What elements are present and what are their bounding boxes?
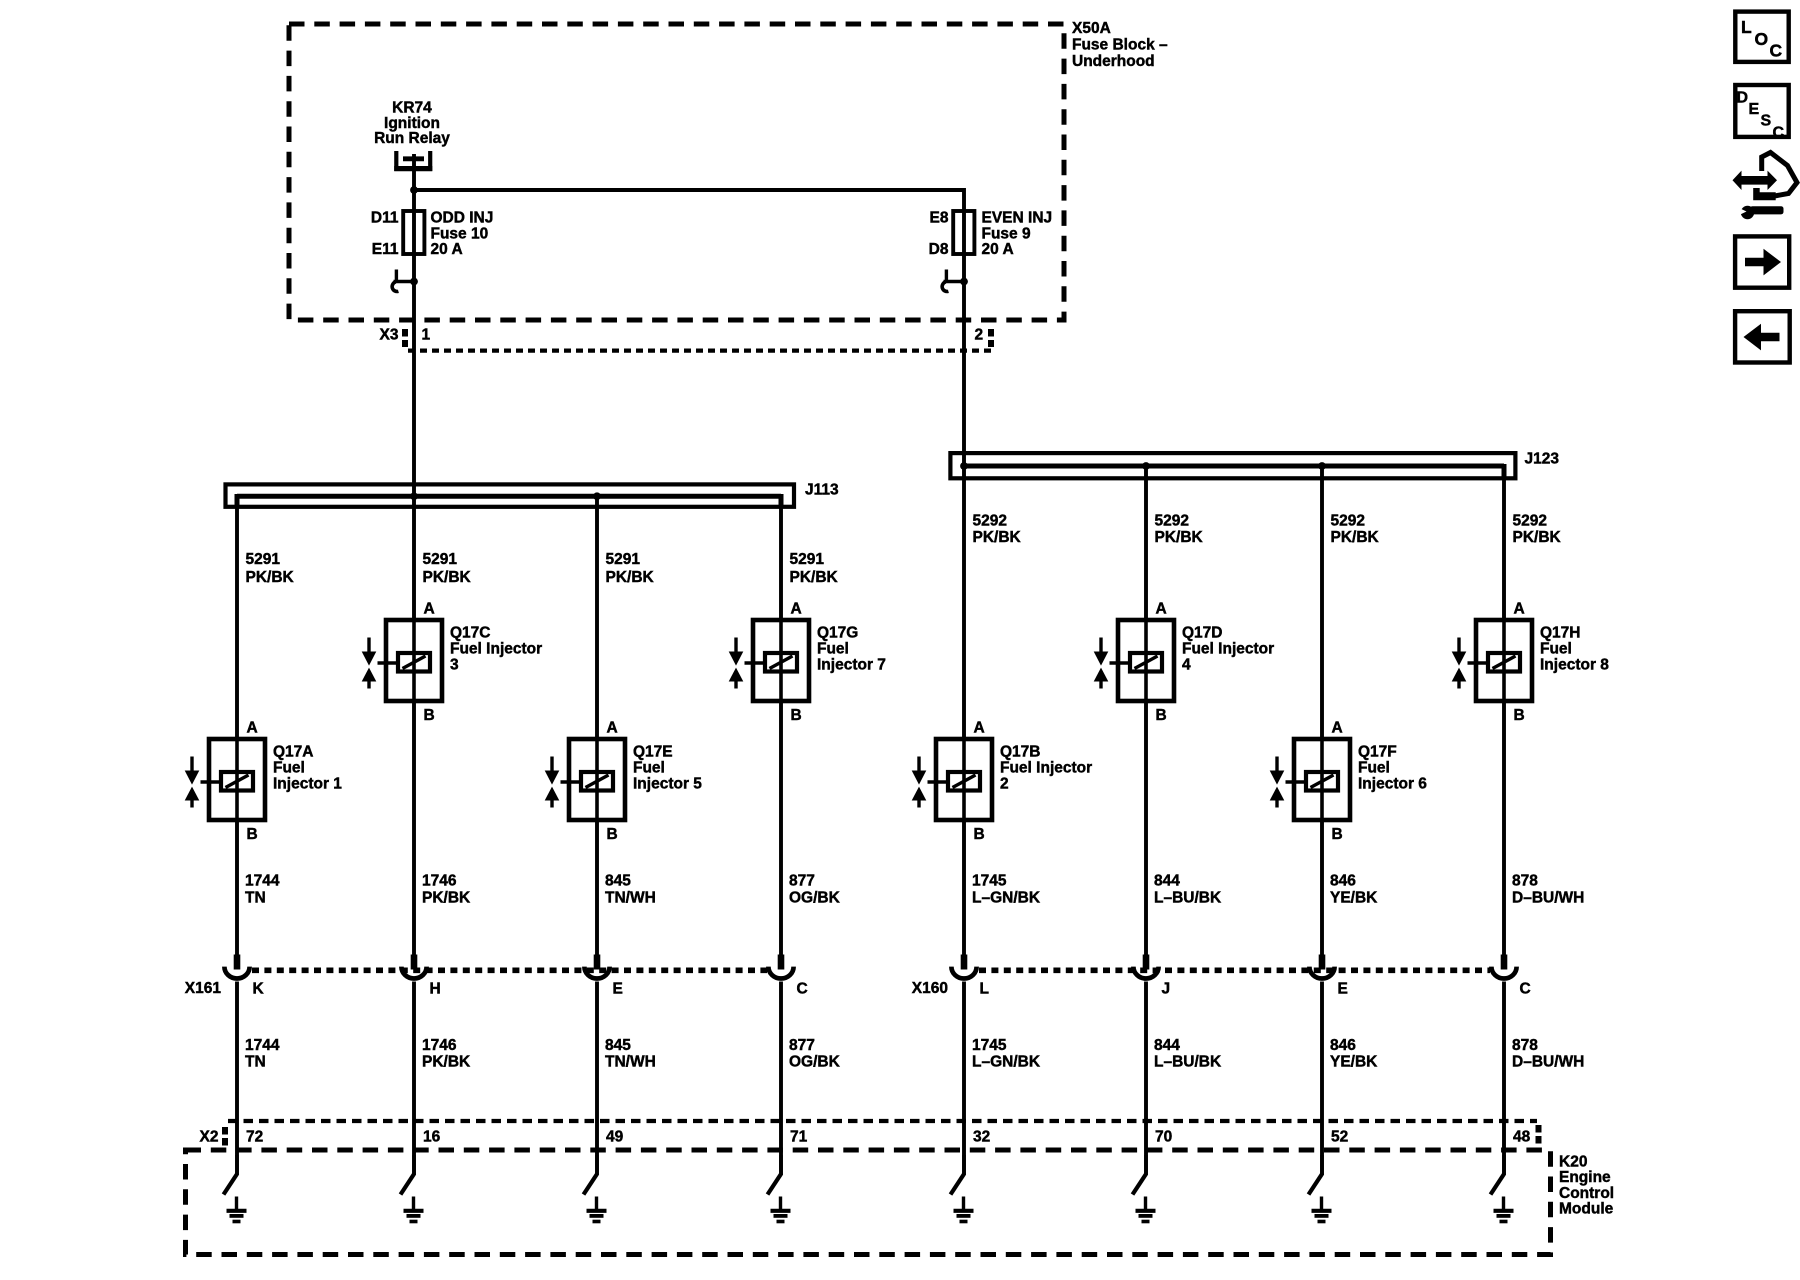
icon box LOC <box>1735 12 1788 62</box>
wire: J113 to fuel injector 5 <box>595 496 599 739</box>
svg-text:D8: D8 <box>929 241 949 258</box>
svg-text:E: E <box>613 981 623 998</box>
connector X161 dashed line <box>252 967 767 973</box>
svg-text:B: B <box>247 826 258 843</box>
connector terminal at pin E <box>584 955 609 979</box>
junction J123 wire J <box>1142 462 1150 470</box>
svg-text:878: 878 <box>1512 1037 1538 1054</box>
svg-text:Q17A: Q17A <box>273 744 314 761</box>
svg-text:Injector 7: Injector 7 <box>817 657 886 674</box>
svg-text:Engine: Engine <box>1559 1169 1611 1186</box>
fuse 9 pin label D8 <box>929 241 949 258</box>
connector X2 pin 16 label <box>423 1129 441 1146</box>
svg-text:K20: K20 <box>1559 1154 1587 1171</box>
svg-text:E: E <box>1338 981 1348 998</box>
svg-text:1745: 1745 <box>972 873 1007 890</box>
svg-text:Underhood: Underhood <box>1072 53 1155 70</box>
fuel injector Q17C pin A label <box>424 601 435 618</box>
svg-text:PK/BK: PK/BK <box>423 569 472 586</box>
connector pin J label <box>1162 981 1171 998</box>
injector 6 driver switch <box>1309 1155 1323 1195</box>
svg-text:844: 844 <box>1154 873 1180 890</box>
junction J123 wire E <box>1318 462 1326 470</box>
wire segment below pin K <box>235 982 239 1176</box>
svg-text:845: 845 <box>605 1037 631 1054</box>
svg-text:20 A: 20 A <box>431 241 463 258</box>
svg-text:OG/BK: OG/BK <box>789 1054 841 1071</box>
wire label 5291 PK/BK at x=237 <box>246 551 295 586</box>
wire segment below pin L <box>962 982 966 1176</box>
svg-text:845: 845 <box>605 873 631 890</box>
svg-text:J: J <box>1162 981 1171 998</box>
svg-text:ODD INJ: ODD INJ <box>431 210 494 227</box>
svg-text:C: C <box>797 981 808 998</box>
svg-text:32: 32 <box>973 1129 990 1146</box>
svg-text:C: C <box>1520 981 1531 998</box>
wire label 844 L&#8211;BU/BK below connector <box>1154 1037 1222 1071</box>
svg-text:48: 48 <box>1513 1129 1531 1146</box>
wire label 1744 TN below connector <box>245 1037 280 1071</box>
wire label 5291 PK/BK at x=781 <box>790 551 839 586</box>
fuel injector Q17D label <box>1182 625 1274 674</box>
ECM K20 label <box>1559 1154 1614 1218</box>
svg-text:TN/WH: TN/WH <box>605 889 656 906</box>
wire segment below pin C <box>1502 982 1506 1176</box>
injector 4 driver switch <box>1133 1155 1147 1195</box>
connector pin L label <box>980 981 989 998</box>
fuel injector Q17B label <box>1000 744 1092 793</box>
svg-text:Fuel: Fuel <box>1540 641 1572 658</box>
splice pack J113 bus bar <box>237 494 781 506</box>
svg-text:Q17F: Q17F <box>1358 744 1397 761</box>
wire: fuel injector 2 to connector <box>962 820 966 956</box>
injector 7 driver switch <box>768 1155 782 1195</box>
svg-text:Module: Module <box>1559 1201 1614 1218</box>
junction below fuse 9 <box>960 278 968 286</box>
wire: fuel injector 6 to connector <box>1320 820 1324 956</box>
svg-text:Fuel Injector: Fuel Injector <box>1000 760 1092 777</box>
wire: fuel injector 4 to connector <box>1144 701 1148 956</box>
svg-text:J123: J123 <box>1525 450 1560 467</box>
wire: J113 to fuel injector 3 <box>412 496 416 620</box>
wire label 1744 TN above connector <box>245 873 280 907</box>
wire segment below pin E <box>1320 982 1324 1176</box>
svg-text:O: O <box>1755 29 1769 49</box>
fuel injector Q17E pin A label <box>607 720 618 737</box>
wire label 846 YE/BK above connector <box>1330 873 1378 907</box>
relay KR74 label <box>374 100 450 148</box>
svg-text:E: E <box>1749 101 1760 118</box>
svg-text:E11: E11 <box>372 241 399 258</box>
fuse block X50A dashed outline box <box>289 24 1064 320</box>
junction J113 wire H <box>410 492 418 500</box>
svg-text:A: A <box>247 720 258 737</box>
svg-text:5291: 5291 <box>606 551 641 568</box>
svg-text:2: 2 <box>1000 776 1009 793</box>
wire: relay KR74 to junction <box>412 154 416 192</box>
wire label 877 OG/BK below connector <box>789 1037 841 1071</box>
svg-text:Q17B: Q17B <box>1000 744 1041 761</box>
svg-text:L–BU/BK: L–BU/BK <box>1154 889 1222 906</box>
svg-text:844: 844 <box>1154 1037 1180 1054</box>
icon arrows and wrench <box>1733 153 1798 220</box>
wire: J113 to fuel injector 7 <box>779 494 783 620</box>
connector pin C label <box>797 981 808 998</box>
fuel injector Q17G pin A label <box>791 601 802 618</box>
wire: J123 to fuel injector 6 <box>1320 466 1324 739</box>
fuel injector Q17B pin B label <box>974 826 985 843</box>
fuel injector Q17E label <box>633 744 702 793</box>
connector X2 left edge tick <box>222 1127 228 1146</box>
wire segment below pin J <box>1144 982 1148 1176</box>
connector X2 pin 52 label <box>1331 1129 1348 1146</box>
fuel injector Q17E pin B label <box>607 826 618 843</box>
svg-text:YE/BK: YE/BK <box>1330 889 1378 906</box>
svg-text:PK/BK: PK/BK <box>246 569 295 586</box>
wire label 1746 PK/BK below connector <box>422 1037 471 1071</box>
connector terminal at pin J <box>1133 955 1158 979</box>
svg-text:Q17D: Q17D <box>1182 625 1223 642</box>
svg-text:878: 878 <box>1512 873 1538 890</box>
connector X3 label <box>380 327 399 344</box>
connector pin E label <box>613 981 623 998</box>
wire segment below pin E <box>595 982 599 1176</box>
wire label 5292 PK/BK at x=964 <box>973 513 1022 546</box>
fuse 10 pin label D11 <box>371 210 399 227</box>
wire segment below pin H <box>412 982 416 1176</box>
svg-text:71: 71 <box>790 1129 808 1146</box>
connector X2 pin 70 label <box>1155 1129 1172 1146</box>
svg-text:1745: 1745 <box>972 1037 1007 1054</box>
ground symbol under driver 7 <box>771 1197 791 1222</box>
connector terminal at pin C <box>768 955 793 979</box>
svg-text:L: L <box>1741 17 1752 37</box>
svg-text:PK/BK: PK/BK <box>790 569 839 586</box>
svg-text:PK/BK: PK/BK <box>973 529 1022 546</box>
wire label 877 OG/BK above connector <box>789 873 841 907</box>
svg-text:B: B <box>1332 826 1343 843</box>
svg-text:846: 846 <box>1330 873 1356 890</box>
wire: J113 to fuel injector 1 <box>235 494 239 739</box>
svg-text:20 A: 20 A <box>982 241 1014 258</box>
svg-text:Fuel Injector: Fuel Injector <box>1182 641 1274 658</box>
svg-text:A: A <box>974 720 985 737</box>
wire label 845 TN/WH below connector <box>605 1037 656 1071</box>
svg-text:Run Relay: Run Relay <box>374 130 450 147</box>
svg-text:Control: Control <box>1559 1185 1614 1202</box>
splice pack J113 label <box>805 482 839 499</box>
svg-text:Fuel: Fuel <box>273 760 305 777</box>
svg-text:B: B <box>607 826 618 843</box>
fuel injector Q17E symbol <box>545 739 625 820</box>
svg-text:X161: X161 <box>185 980 222 997</box>
junction below fuse 10 <box>410 278 418 286</box>
connector X2 pin 71 label <box>790 1129 808 1146</box>
svg-text:5291: 5291 <box>790 551 825 568</box>
fuel injector Q17A label <box>273 744 342 793</box>
fuel injector Q17B symbol <box>912 739 992 820</box>
svg-text:TN: TN <box>245 1054 266 1071</box>
fuel injector Q17G symbol <box>729 620 809 701</box>
fuse 9 EVEN INJ symbol <box>953 211 974 282</box>
wire label 1746 PK/BK above connector <box>422 873 471 907</box>
fuse block X50A label <box>1072 20 1168 70</box>
svg-text:PK/BK: PK/BK <box>1331 529 1380 546</box>
connector terminal at pin H <box>401 955 426 979</box>
fuel injector Q17H pin A label <box>1514 601 1525 618</box>
svg-text:OG/BK: OG/BK <box>789 889 841 906</box>
connector X2 pin 72 label <box>246 1129 263 1146</box>
svg-text:5292: 5292 <box>1155 513 1189 530</box>
injector 2 driver switch <box>951 1155 965 1195</box>
svg-text:TN: TN <box>245 889 266 906</box>
wire: J123 to fuel injector 4 <box>1144 466 1148 620</box>
connector X3 pin 2 label <box>975 327 984 344</box>
svg-text:A: A <box>607 720 618 737</box>
svg-text:Fuse 10: Fuse 10 <box>431 225 489 242</box>
svg-text:YE/BK: YE/BK <box>1330 1054 1378 1071</box>
wire label 1745 L&#8211;GN/BK above connector <box>972 873 1041 907</box>
svg-text:49: 49 <box>606 1129 624 1146</box>
svg-text:A: A <box>1514 601 1525 618</box>
svg-text:1: 1 <box>422 327 431 344</box>
fuel injector Q17C label <box>450 625 542 674</box>
splice pack J123 bus bar <box>964 464 1504 480</box>
connector pin C label <box>1520 981 1531 998</box>
fuel injector Q17F pin A label <box>1332 720 1343 737</box>
svg-text:S: S <box>1761 113 1772 130</box>
fuel injector Q17G pin B label <box>791 707 802 724</box>
svg-text:Fuse Block –: Fuse Block – <box>1072 37 1168 54</box>
splice pack J123 outline <box>950 453 1515 478</box>
ground symbol under driver 4 <box>1136 1197 1156 1222</box>
wire label 5292 PK/BK at x=1504 <box>1513 513 1562 546</box>
connector X161 label <box>185 980 222 997</box>
splice pack J123 label <box>1525 450 1560 467</box>
svg-text:D11: D11 <box>371 210 399 227</box>
svg-text:Fuse 9: Fuse 9 <box>982 225 1031 242</box>
wire segment below pin C <box>779 982 783 1176</box>
svg-text:Fuel Injector: Fuel Injector <box>450 641 542 658</box>
fuse 10 ODD INJ symbol <box>403 190 424 282</box>
wire label 846 YE/BK below connector <box>1330 1037 1378 1071</box>
connector X3 right edge tick <box>988 329 994 347</box>
wire: fuel injector 3 to connector <box>412 701 416 956</box>
relay KR74 contact symbol <box>394 151 432 171</box>
icon box DESC <box>1735 85 1788 142</box>
fuel injector Q17C symbol <box>362 620 442 701</box>
wire: fuel injector 5 to connector <box>595 820 599 956</box>
svg-text:Fuel: Fuel <box>817 641 849 658</box>
wire 5292 from X3 pin 2 to J123 <box>962 282 966 467</box>
wire label 845 TN/WH above connector <box>605 873 656 907</box>
svg-text:52: 52 <box>1331 1129 1348 1146</box>
svg-text:5291: 5291 <box>246 551 281 568</box>
wire: feed to EVEN INJ fuse <box>414 190 964 212</box>
svg-text:846: 846 <box>1330 1037 1356 1054</box>
connector pin K label <box>253 981 265 998</box>
svg-text:X50A: X50A <box>1072 20 1111 37</box>
svg-text:PK/BK: PK/BK <box>422 889 471 906</box>
connector X2 pin 49 label <box>606 1129 624 1146</box>
fuel injector Q17F symbol <box>1270 739 1350 820</box>
fuel injector Q17H pin B label <box>1514 707 1525 724</box>
connector X160 label <box>912 980 948 997</box>
svg-text:C: C <box>1773 125 1785 142</box>
fuel injector Q17D symbol <box>1094 620 1174 701</box>
fuel injector Q17C pin B label <box>424 707 435 724</box>
fuel injector Q17A symbol <box>185 739 265 820</box>
svg-text:Q17H: Q17H <box>1540 625 1581 642</box>
svg-text:J113: J113 <box>805 482 839 499</box>
svg-text:Fuel: Fuel <box>1358 760 1390 777</box>
ground symbol under driver 8 <box>1494 1197 1514 1222</box>
fuel injector Q17F pin B label <box>1332 826 1343 843</box>
svg-text:L–GN/BK: L–GN/BK <box>972 1054 1041 1071</box>
svg-text:PK/BK: PK/BK <box>606 569 655 586</box>
svg-text:72: 72 <box>246 1129 263 1146</box>
svg-text:5292: 5292 <box>1513 513 1547 530</box>
connector X2 pin 32 label <box>973 1129 990 1146</box>
connector X3 pin 1 label <box>422 327 431 344</box>
svg-text:877: 877 <box>789 873 815 890</box>
svg-text:A: A <box>1156 601 1167 618</box>
ground symbol under driver 1 <box>227 1197 247 1222</box>
connector pin H label <box>430 981 441 998</box>
svg-text:70: 70 <box>1155 1129 1172 1146</box>
fuel injector Q17A pin A label <box>247 720 258 737</box>
svg-text:877: 877 <box>789 1037 815 1054</box>
wire label 878 D&#8211;BU/WH below connector <box>1512 1037 1584 1071</box>
junction J113 wire E <box>593 492 601 500</box>
wire: fuel injector 8 to connector <box>1502 701 1506 956</box>
connector X3 left edge tick <box>402 329 408 347</box>
fuel injector Q17H label <box>1540 625 1609 674</box>
junction J123 wire L <box>960 462 968 470</box>
ground symbol under driver 6 <box>1312 1197 1332 1222</box>
svg-text:4: 4 <box>1182 657 1191 674</box>
svg-text:Q17G: Q17G <box>817 625 858 642</box>
svg-text:B: B <box>974 826 985 843</box>
svg-text:Q17C: Q17C <box>450 625 491 642</box>
svg-text:Injector 5: Injector 5 <box>633 776 702 793</box>
connector X160 dashed line <box>979 967 1490 973</box>
icon box back arrow <box>1735 311 1790 362</box>
svg-text:B: B <box>791 707 802 724</box>
fuse 10 pin label E11 <box>372 241 399 258</box>
connector X3 dashed body line <box>408 349 996 353</box>
connector terminal at pin L <box>951 955 976 979</box>
fuse 9 output terminal hook <box>942 270 964 292</box>
wire label 5292 PK/BK at x=1322 <box>1331 513 1380 546</box>
fuel injector Q17D pin A label <box>1156 601 1167 618</box>
fuel injector Q17A pin B label <box>247 826 258 843</box>
connector terminal at pin E <box>1309 955 1334 979</box>
svg-text:2: 2 <box>975 327 984 344</box>
fuse 9 value label <box>982 210 1053 259</box>
connector terminal at pin C <box>1491 955 1516 979</box>
svg-text:B: B <box>1514 707 1525 724</box>
svg-text:C: C <box>1770 41 1783 61</box>
svg-text:Q17E: Q17E <box>633 744 673 761</box>
svg-text:B: B <box>1156 707 1167 724</box>
wire label 1745 L&#8211;GN/BK below connector <box>972 1037 1041 1071</box>
svg-text:H: H <box>430 981 441 998</box>
fuel injector Q17G label <box>817 625 886 674</box>
svg-text:5292: 5292 <box>1331 513 1365 530</box>
svg-text:K: K <box>253 981 265 998</box>
svg-text:5292: 5292 <box>973 513 1007 530</box>
svg-text:D–BU/WH: D–BU/WH <box>1512 889 1584 906</box>
splice pack J113 outline <box>226 484 795 506</box>
svg-text:1746: 1746 <box>422 1037 457 1054</box>
injector 3 driver switch <box>401 1155 415 1195</box>
svg-text:1744: 1744 <box>245 1037 280 1054</box>
ground symbol under driver 5 <box>587 1197 607 1222</box>
connector X2 right edge tick <box>1536 1125 1542 1144</box>
svg-text:5291: 5291 <box>423 551 458 568</box>
fuse 10 output terminal hook <box>392 270 414 292</box>
svg-text:PK/BK: PK/BK <box>422 1054 471 1071</box>
svg-text:X160: X160 <box>912 980 948 997</box>
svg-text:Injector 8: Injector 8 <box>1540 657 1609 674</box>
connector X2 pin 48 label <box>1513 1129 1531 1146</box>
svg-text:D: D <box>1737 90 1749 107</box>
svg-text:L–BU/BK: L–BU/BK <box>1154 1054 1222 1071</box>
svg-text:B: B <box>424 707 435 724</box>
wire: J123 to fuel injector 8 <box>1502 464 1506 620</box>
fuel injector Q17D pin B label <box>1156 707 1167 724</box>
svg-text:X2: X2 <box>200 1129 219 1146</box>
svg-text:PK/BK: PK/BK <box>1513 529 1562 546</box>
wire label 5292 PK/BK at x=1146 <box>1155 513 1204 546</box>
svg-text:3: 3 <box>450 657 459 674</box>
svg-text:A: A <box>1332 720 1343 737</box>
svg-text:1744: 1744 <box>245 873 280 890</box>
svg-text:1746: 1746 <box>422 873 457 890</box>
fuel injector Q17H symbol <box>1452 620 1532 701</box>
wire label 844 L&#8211;BU/BK above connector <box>1154 873 1222 907</box>
fuse 10 value label <box>431 210 494 259</box>
svg-text:X3: X3 <box>380 327 399 344</box>
wire label 878 D&#8211;BU/WH above connector <box>1512 873 1584 907</box>
svg-text:Fuel: Fuel <box>633 760 665 777</box>
svg-text:D–BU/WH: D–BU/WH <box>1512 1054 1584 1071</box>
svg-text:E8: E8 <box>930 210 949 227</box>
svg-text:Injector 6: Injector 6 <box>1358 776 1427 793</box>
wire: J123 to fuel injector 2 <box>962 466 966 739</box>
icon box forward arrow <box>1735 236 1789 287</box>
connector X2 dashed body line <box>228 1119 1537 1123</box>
wire label 5291 PK/BK at x=597 <box>606 551 655 586</box>
fuel injector Q17F label <box>1358 744 1427 793</box>
svg-text:Injector 1: Injector 1 <box>273 776 342 793</box>
wire: fuel injector 7 to connector <box>779 701 783 956</box>
fuel injector Q17B pin A label <box>974 720 985 737</box>
svg-text:TN/WH: TN/WH <box>605 1054 656 1071</box>
connector X2 label <box>200 1129 219 1146</box>
connector terminal at pin K <box>224 955 249 979</box>
ground symbol under driver 3 <box>404 1197 424 1222</box>
junction at relay output <box>410 186 418 194</box>
svg-text:A: A <box>424 601 435 618</box>
connector pin E label <box>1338 981 1348 998</box>
wire label 5291 PK/BK at x=414 <box>423 551 472 586</box>
injector 1 driver switch <box>224 1155 238 1195</box>
wire: fuel injector 1 to connector <box>235 820 239 956</box>
svg-text:L: L <box>980 981 989 998</box>
injector 5 driver switch <box>584 1155 598 1195</box>
